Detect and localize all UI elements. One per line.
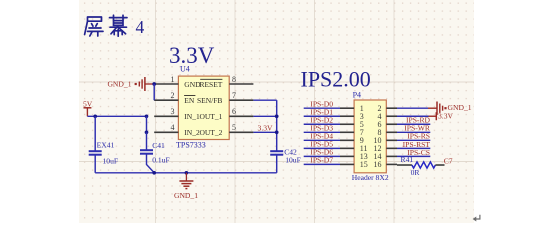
wire 5V to pin3 rail xyxy=(87,115,146,117)
paragraph mark xyxy=(473,215,480,222)
wire net IPS-D2 xyxy=(304,123,340,125)
U4 pin 6 (OUT_1) xyxy=(199,107,253,121)
svg-text:OUT_1: OUT_1 xyxy=(199,112,222,121)
wire junction to pin2 (vertical) xyxy=(153,84,155,100)
junction pin1/pin2 tie xyxy=(152,82,156,86)
U4 pin 2 (EN) xyxy=(154,91,195,105)
P4 pin 6 xyxy=(378,120,398,129)
svg-text:7: 7 xyxy=(232,91,236,100)
wire net IPS-D4 xyxy=(304,139,340,141)
U4 pin 4 (IN_2) xyxy=(154,123,200,137)
U4 pin 3 (IN_1) xyxy=(154,107,200,121)
U4 pin 1 (GND) xyxy=(154,75,201,89)
junction pin4 node xyxy=(145,130,149,134)
P4 pin 13 xyxy=(340,152,368,161)
power port GND_1 (right) xyxy=(428,102,472,115)
svg-text:10uF: 10uF xyxy=(285,155,301,164)
capacitor C7 (pin stub) xyxy=(435,157,452,166)
wire net IPS-D6 xyxy=(304,155,340,157)
wire at P4 pin 8 xyxy=(397,131,430,133)
P4 pin 10 xyxy=(374,136,398,145)
P4 pin 2 xyxy=(378,104,398,113)
svg-text:2: 2 xyxy=(171,91,175,100)
svg-text:RESET: RESET xyxy=(199,80,222,89)
wire net IPS-D0 xyxy=(304,107,340,109)
svg-text:5V: 5V xyxy=(83,99,93,108)
svg-text:OUT_2: OUT_2 xyxy=(199,128,222,137)
wire pin6 to 3.3V bus xyxy=(253,115,276,117)
P4 pin 12 xyxy=(374,144,398,153)
capacitor C42 10uF xyxy=(270,147,301,173)
svg-text:16: 16 xyxy=(374,160,382,169)
P4 pin 16 xyxy=(374,160,398,169)
wire pin7 to 3.3V bus xyxy=(253,99,276,101)
svg-text:5: 5 xyxy=(232,123,236,132)
svg-text:TPS7333: TPS7333 xyxy=(176,141,206,150)
wire net IPS-D3 xyxy=(304,131,340,133)
wire at P4 pin 2 xyxy=(397,107,428,109)
regulator U4 body xyxy=(178,76,229,139)
svg-text:GND_1: GND_1 xyxy=(174,191,198,200)
svg-text:10uF: 10uF xyxy=(103,157,119,166)
P4 pin 15 xyxy=(340,160,368,169)
svg-text:C7: C7 xyxy=(444,157,453,166)
capacitor C41 0.1uF xyxy=(140,132,170,173)
wire at P4 pin 10 xyxy=(397,139,430,141)
svg-text:EN: EN xyxy=(184,96,195,105)
svg-text:4: 4 xyxy=(171,123,175,132)
capacitor EX41 10uF xyxy=(89,116,118,173)
wire at P4 pin 6 xyxy=(397,123,430,125)
svg-text:4: 4 xyxy=(136,17,145,37)
P4 pin 3 xyxy=(340,112,364,121)
title text 屏幕 4 xyxy=(85,15,127,36)
P4 pin 11 xyxy=(340,144,368,153)
power port GND_1 (left) xyxy=(107,77,154,91)
svg-text:P4: P4 xyxy=(353,90,361,99)
svg-text:IN_1: IN_1 xyxy=(184,112,200,121)
svg-text:C41: C41 xyxy=(152,141,165,150)
P4 pin 4 xyxy=(378,112,398,121)
wire at P4 pin 4 xyxy=(397,115,429,117)
junction bus/pin5 xyxy=(275,130,279,134)
P4 pin 14 xyxy=(374,152,398,161)
svg-text:SEN/FB: SEN/FB xyxy=(197,96,222,105)
svg-text:3.3V: 3.3V xyxy=(438,111,453,120)
svg-text:8: 8 xyxy=(232,75,236,84)
P4 pin 1 xyxy=(340,104,364,113)
power port 3.3V (right, pin 4) xyxy=(429,111,454,120)
wire net IPS-D5 xyxy=(304,147,340,149)
svg-text:IN_2: IN_2 xyxy=(184,128,200,137)
ground GND_1 (earth symbol) xyxy=(174,173,198,200)
svg-text:15: 15 xyxy=(360,160,368,169)
svg-text:Header 8X2: Header 8X2 xyxy=(352,173,389,182)
wire ground rail (bottom) xyxy=(95,172,277,174)
power port 5V xyxy=(83,99,93,116)
header P4 body xyxy=(354,100,386,173)
U4 pin 8 (RESET) xyxy=(199,75,253,89)
wire pin3 node down to pin4 node xyxy=(146,116,148,132)
wire at P4 pin 14 xyxy=(397,155,430,157)
P4 pin 5 xyxy=(340,120,364,129)
svg-text:3.3V: 3.3V xyxy=(169,43,215,68)
svg-text:3: 3 xyxy=(171,107,175,116)
svg-text:U4: U4 xyxy=(180,65,190,74)
P4 pin 9 xyxy=(340,136,364,145)
wire 3.3V bus (vertical) xyxy=(276,100,278,150)
P4 pin 7 xyxy=(340,128,364,137)
svg-text:GND_1: GND_1 xyxy=(107,79,131,88)
wire at P4 pin 12 xyxy=(397,147,430,149)
svg-text:IPS-D7: IPS-D7 xyxy=(310,156,333,165)
svg-text:6: 6 xyxy=(232,107,236,116)
svg-text:R41: R41 xyxy=(401,155,414,164)
wire pin5 to 3.3V bus xyxy=(253,131,276,133)
svg-text:EX41: EX41 xyxy=(97,141,115,150)
junction EX41 tap xyxy=(93,114,97,118)
U4 pin 7 (SEN/FB) xyxy=(197,91,253,105)
junction bus/pin6 xyxy=(275,114,279,118)
P4 pin 8 xyxy=(378,128,398,137)
svg-text:IPS2.00: IPS2.00 xyxy=(301,67,371,92)
svg-text:3.3V: 3.3V xyxy=(258,124,273,133)
junction C41 to rail xyxy=(152,171,156,175)
junction pin3 node xyxy=(145,114,149,118)
svg-text:1: 1 xyxy=(171,75,175,84)
svg-text:0R: 0R xyxy=(411,168,421,177)
junction ground tap xyxy=(185,171,189,175)
svg-text:0.1uF: 0.1uF xyxy=(152,156,170,165)
U4 pin 5 (OUT_2) xyxy=(199,123,253,137)
wire net IPS-D7 xyxy=(304,163,340,165)
wire net IPS-D1 xyxy=(304,115,340,117)
resistor R41 0R xyxy=(397,155,435,177)
